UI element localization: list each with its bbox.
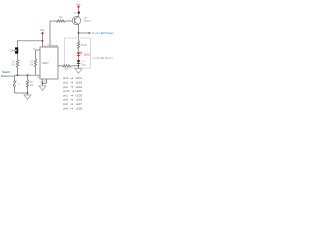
- switch S1: [13, 75, 21, 93]
- svg-text:pin9: pin9: [63, 106, 68, 110]
- resistor R3 (base): [56, 16, 72, 22]
- svg-text:V+ to LED Drivers: V+ to LED Drivers: [92, 31, 114, 35]
- svg-text:RLED: RLED: [81, 44, 88, 47]
- chip ground pins: [41, 79, 48, 84]
- net flag V+ on collector: [74, 11, 80, 15]
- transistor Q5: [72, 16, 91, 25]
- svg-text:LED7: LED7: [76, 102, 83, 106]
- svg-text:BC547: BC547: [84, 20, 92, 23]
- svg-text:LED1: LED1: [84, 53, 91, 56]
- svg-text:pin2: pin2: [63, 81, 68, 85]
- wire collector to Vcc: [78, 7, 80, 17]
- junction at (42.5,41): [42, 40, 44, 42]
- wire resistor to clock node: [17, 67, 19, 75]
- resistor R2 (pull-up): [29, 50, 40, 75]
- wire Reset up and right: [50, 21, 56, 47]
- svg-text:LED6: LED6: [76, 98, 83, 102]
- diode D1: [77, 60, 86, 66]
- node Vcc (driver supply): [76, 3, 81, 8]
- box subcircuit LED driver: [65, 38, 91, 68]
- pin map list: [63, 76, 83, 110]
- junction clk/resistor: [17, 74, 19, 76]
- junction emitter node: [78, 32, 80, 34]
- wire emitter down: [78, 25, 80, 41]
- svg-text:pin4: pin4: [63, 85, 68, 89]
- net label V+ to LED Drivers: [79, 31, 115, 35]
- wire Vcc down to chip pin 16: [42, 34, 44, 48]
- svg-text:1 of 8 LED Drivers: 1 of 8 LED Drivers: [92, 57, 113, 60]
- svg-text:pin10: pin10: [63, 89, 70, 93]
- svg-text:LED3: LED3: [76, 85, 83, 89]
- wire chip output to driver: [58, 65, 62, 67]
- IC U1 4017: [40, 43, 58, 79]
- svg-text:pin1: pin1: [63, 93, 68, 97]
- svg-text:pin5: pin5: [63, 98, 68, 102]
- junction cap branch: [27, 74, 29, 76]
- resistor RLED: [77, 41, 87, 52]
- LED LED1: [77, 52, 91, 60]
- junction above ground: [78, 65, 80, 67]
- ground (driver): [75, 66, 82, 74]
- resistor R1 (series clk): [11, 60, 19, 68]
- resistor R3 (debounce): [26, 75, 34, 93]
- svg-text:Debounce: Debounce: [1, 74, 14, 78]
- svg-text:pin6: pin6: [63, 102, 68, 106]
- svg-text:Reset: Reset: [51, 43, 58, 47]
- svg-text:LED2: LED2: [76, 81, 83, 85]
- ground (chip): [39, 83, 46, 90]
- svg-text:Gnd: Gnd: [81, 63, 86, 66]
- label switch debounce: [1, 70, 14, 78]
- connector Clk flag: [10, 47, 19, 53]
- wire horizontal Vcc rail to left: [18, 40, 43, 42]
- svg-text:pin3: pin3: [63, 76, 68, 80]
- wire clock node horizontal: [15, 74, 41, 76]
- svg-text:LED5: LED5: [76, 93, 83, 97]
- svg-text:4017: 4017: [42, 61, 49, 65]
- ground (debounce): [24, 93, 31, 100]
- svg-text:LED8: LED8: [76, 106, 83, 110]
- resistor 10k (driver input): [62, 65, 79, 71]
- node Vcc (chip supply): [40, 29, 45, 34]
- wire down clk input column: [17, 41, 19, 60]
- svg-text:LED4: LED4: [76, 89, 83, 93]
- svg-text:LED1: LED1: [76, 76, 83, 80]
- wire switch+cap to ground: [15, 92, 28, 94]
